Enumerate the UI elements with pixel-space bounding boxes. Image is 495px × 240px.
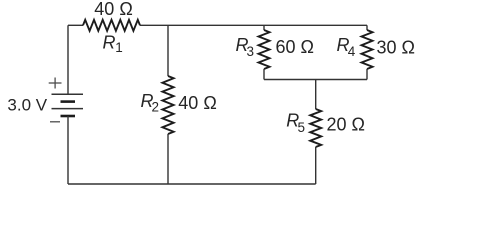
resistor R1 [83,20,140,31]
wire: R3 branch upper stub [263,25,265,30]
svg-text:60 Ω: 60 Ω [276,37,314,57]
wire: R5 branch upper stub [315,80,317,110]
wire: R2 branch lower [167,134,169,184]
svg-text:5: 5 [298,120,306,135]
resistor R5 [310,109,321,147]
wire: left branch lower (battery - to bottom rail) [67,116,69,184]
battery plate short (-) [61,115,76,118]
svg-text:40 Ω: 40 Ω [94,0,132,19]
wire: top rail right segment [140,24,367,26]
wire: bottom rail [68,183,316,185]
svg-text:1: 1 [115,40,123,55]
resistor R2 [162,76,173,134]
wire: top rail left segment [68,24,83,26]
resistor R4 [362,30,373,69]
minus sign (- terminal) [50,121,60,123]
svg-text:3: 3 [247,44,255,59]
svg-text:30 Ω: 30 Ω [377,38,415,58]
battery plate long (+) [52,93,84,95]
svg-text:2: 2 [152,100,160,115]
svg-text:R: R [103,32,116,52]
wire: parallel-section bottom rail [264,79,367,81]
svg-text:3.0 V: 3.0 V [7,96,47,115]
wire: R4 branch lower stub [366,69,368,80]
svg-text:4: 4 [348,44,356,59]
wire: R4 branch upper stub [366,25,368,30]
resistor R3 [259,30,270,69]
wire: R3 branch lower stub [263,69,265,80]
battery B1 (3.0 V) [52,94,84,116]
wire: R2 branch upper [167,25,169,76]
svg-text:20 Ω: 20 Ω [327,115,365,135]
plus sign (+ terminal) [49,78,62,89]
svg-text:40 Ω: 40 Ω [178,93,216,113]
wire: left branch upper (to battery +) [67,25,69,94]
wire: R5 branch lower [315,147,317,184]
battery plate short (-) [61,100,76,103]
battery plate long (+) [52,108,84,110]
